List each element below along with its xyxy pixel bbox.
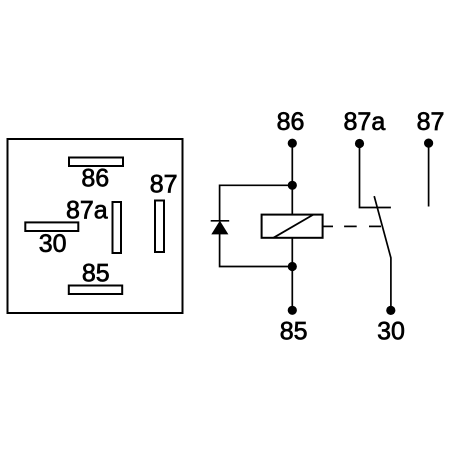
- svg-text:30: 30: [377, 318, 405, 346]
- svg-text:87a: 87a: [66, 197, 108, 225]
- svg-text:30: 30: [39, 230, 67, 258]
- svg-text:85: 85: [280, 318, 308, 346]
- svg-text:87: 87: [417, 108, 445, 136]
- svg-text:86: 86: [277, 108, 305, 136]
- svg-text:86: 86: [81, 165, 109, 193]
- svg-text:87a: 87a: [344, 108, 386, 136]
- svg-text:87: 87: [150, 171, 178, 199]
- svg-text:85: 85: [82, 260, 110, 288]
